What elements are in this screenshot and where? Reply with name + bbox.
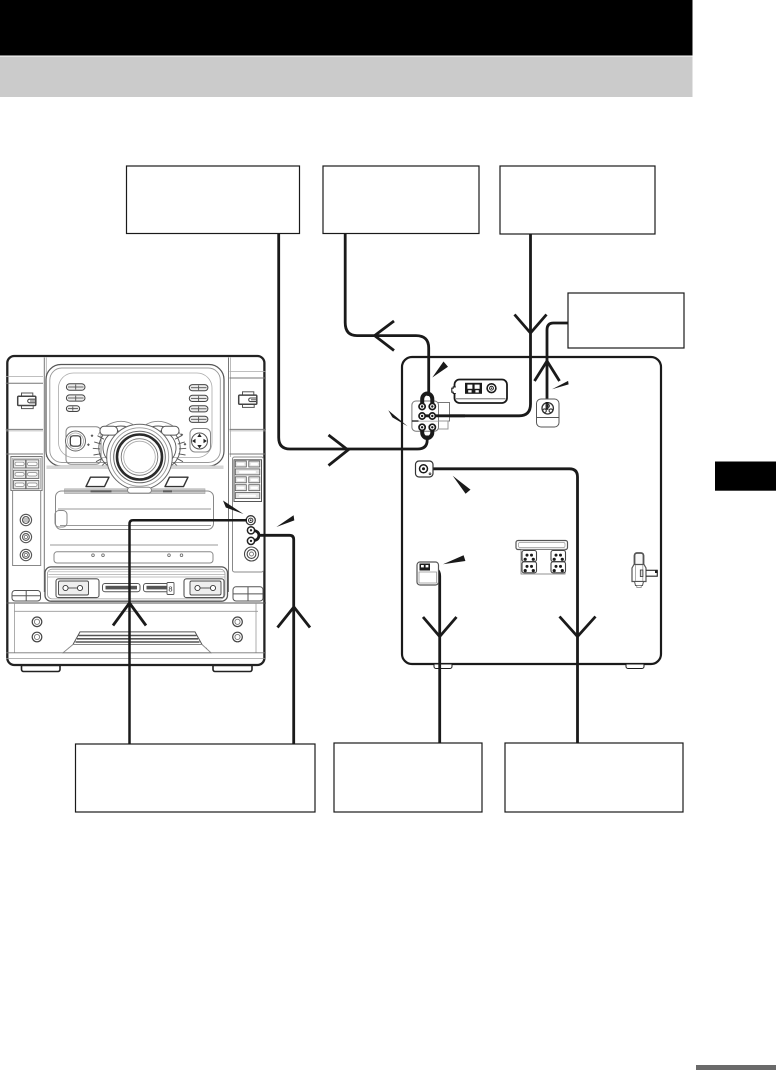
label box 1 (top left) [127, 166, 300, 234]
right extension tabs [437, 403, 450, 422]
front jack bottom [247, 537, 254, 544]
cassette deck [45, 567, 228, 601]
side column dividers [6, 358, 266, 593]
right pill buttons [189, 385, 208, 423]
wire W1: box1 to antenna block bottom loop [279, 234, 428, 450]
wire W7: rear middle-left jack right then down to box C [430, 469, 578, 743]
wire W2: box2 to antenna block top loop [345, 234, 429, 396]
svg-text:8: 8 [168, 585, 172, 594]
left tick [412, 420, 419, 422]
arrow A4 (up) [535, 361, 560, 381]
pointer P5 at bottom-left jack [443, 555, 465, 564]
trapezoid buttons [86, 477, 188, 486]
arrow A7 (down) [560, 617, 596, 637]
unit outer body [7, 356, 264, 665]
feet [22, 666, 61, 672]
label box small (right) [568, 293, 684, 348]
pointer P3 at AC outlet jack [552, 381, 569, 389]
diamond dots [87, 433, 186, 446]
left cassette window [56, 579, 99, 598]
pointer P6 at front top jack [223, 501, 244, 515]
bottom loop [422, 428, 432, 438]
left pill buttons [66, 384, 85, 412]
big volume knob [107, 424, 173, 493]
label box A (bottom left) [76, 744, 316, 812]
panel outline [402, 357, 661, 664]
display gray bar [65, 489, 206, 494]
arrow A3 (down) [515, 315, 547, 334]
speaker grill trapezoid [73, 632, 202, 645]
bottom left circles [32, 617, 242, 642]
right jog wheel (ribbed arc) [146, 421, 186, 470]
label box 3 (top right) [500, 166, 655, 234]
right cassette window [184, 579, 224, 598]
arrow A1 (right) [329, 435, 349, 466]
top loop [422, 394, 432, 405]
right deck-level button block [233, 587, 263, 601]
panel bottom shade band [47, 466, 224, 470]
right d-pad sub-panel [190, 429, 211, 453]
label box B (bottom middle) [334, 743, 482, 812]
main block [412, 401, 439, 431]
pointer P1 at antenna block top [432, 362, 448, 378]
panel feet [434, 664, 452, 669]
header gray bar [0, 57, 693, 98]
label box 2 (top middle) [323, 166, 479, 234]
arrow A2 (left) [375, 321, 394, 351]
label box C (bottom right) [505, 743, 683, 812]
terminals 6x [419, 403, 435, 430]
pointer P4 at middle-left jack [453, 476, 471, 494]
pointer P2 left of antenna block [388, 410, 407, 426]
wire W4: small box to AC outlet jack [547, 323, 569, 409]
CD tray [56, 491, 214, 530]
wire W8: rear bottom-left jack down to box B [428, 567, 440, 743]
left small knob [66, 431, 86, 451]
header black bar [0, 0, 693, 56]
right tall panel [233, 457, 264, 572]
left tall panel [11, 457, 42, 491]
bottom section lines [6, 602, 266, 604]
front jack top (phones) [246, 516, 255, 525]
left knob sub-panel [66, 427, 101, 465]
left deck-level button block [12, 591, 41, 602]
right ear button [239, 392, 257, 408]
footer gray tab [696, 1065, 776, 1070]
arrow A8 (down) [423, 617, 457, 637]
wire W3: box3 down then left to block middle row [423, 234, 531, 416]
small 8 icon [167, 583, 174, 595]
left jog wheel (ribbed arc) [93, 421, 133, 470]
deck top bar with screws [54, 552, 213, 563]
left ear button [18, 393, 36, 409]
front jack middle [247, 527, 254, 534]
center slots [103, 584, 141, 592]
wire over block (middle row) [421, 414, 465, 417]
front big ringed jack [245, 547, 259, 561]
pointer P7 at front middle jack [276, 515, 294, 527]
right edge black chapter tab [715, 462, 776, 491]
left panel round buttons [20, 514, 31, 560]
center display panel (double bezel) [46, 365, 224, 467]
